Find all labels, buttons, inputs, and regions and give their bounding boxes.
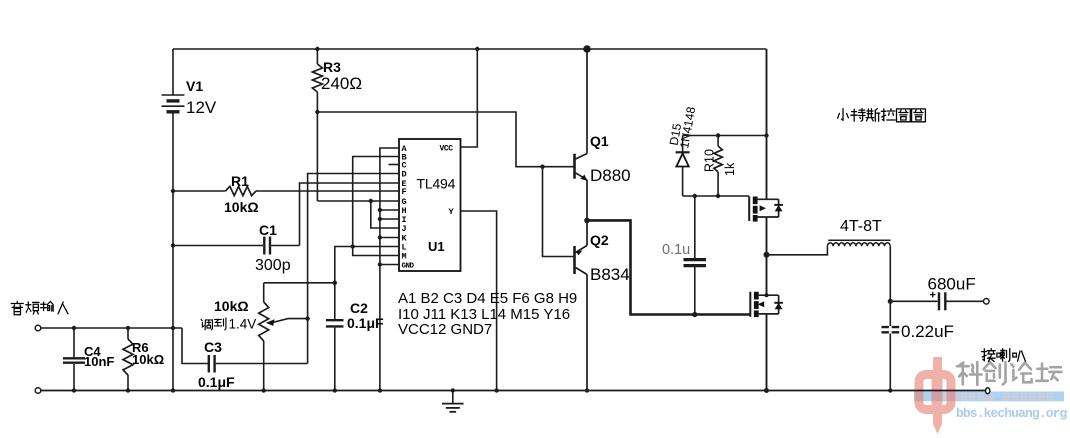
terminal speaker top — [984, 299, 990, 305]
node R10 top — [716, 133, 720, 137]
wire coil right end down to rail — [889, 246, 891, 390]
node 0.22uF bottom on rail — [888, 388, 892, 392]
battery V1 — [162, 95, 185, 112]
transistor lower MOSFET — [750, 292, 783, 317]
svg-text:V1: V1 — [186, 78, 203, 94]
potentiometer 10k body — [259, 283, 269, 391]
wire pin H stub — [380, 209, 399, 211]
svg-text:U1: U1 — [428, 239, 445, 254]
node Y riser on rail — [494, 388, 498, 392]
svg-text:C2: C2 — [350, 300, 368, 316]
svg-text:240Ω: 240Ω — [321, 74, 362, 93]
wire pin K stub — [380, 237, 399, 239]
wire pin GND stub — [380, 264, 399, 266]
wire C2 junction up to pin L line — [335, 247, 399, 283]
wire D15 R10 top line to drain rail — [683, 135, 767, 137]
svg-text:12V: 12V — [186, 98, 217, 117]
node pin K on bus — [378, 235, 382, 239]
svg-text:0.1u: 0.1u — [662, 242, 690, 258]
svg-text:A1 B2 C3 D4 E5 F6 G8 H9: A1 B2 C3 D4 E5 F6 G8 H9 — [398, 290, 577, 307]
wire top supply rail — [173, 48, 767, 50]
node R6 bottom — [126, 388, 130, 392]
ground — [442, 391, 464, 412]
node C4 top — [72, 326, 76, 330]
transistor Q2 — [575, 220, 588, 390]
wire audio input line — [41, 327, 182, 329]
node Q2 collector on rail — [585, 388, 589, 392]
svg-text:0.1μF: 0.1μF — [347, 315, 384, 331]
svg-text:B834: B834 — [590, 265, 630, 284]
node pin H on bus — [378, 208, 382, 212]
node pin L junction on B-L-M tie — [351, 244, 355, 248]
terminal audio input top — [35, 325, 41, 331]
node VCC riser on rail — [475, 47, 479, 51]
node C2 top junction — [333, 281, 337, 285]
node 680uF branch junction — [888, 299, 893, 304]
diode D15 — [676, 136, 690, 197]
transistor upper MOSFET — [749, 196, 783, 221]
svg-text:10kΩ: 10kΩ — [224, 199, 259, 215]
svg-text:4T-8T: 4T-8T — [840, 218, 882, 235]
svg-text:Y: Y — [449, 207, 455, 217]
svg-text:R3: R3 — [323, 59, 341, 75]
watermark forum name — [957, 362, 982, 385]
capacitor 0.22uF — [882, 326, 900, 334]
svg-text:bbs.kechuang.org: bbs.kechuang.org — [956, 406, 1068, 421]
node 0.1u top junction — [693, 194, 697, 198]
capacitor 0.1u — [684, 196, 707, 315]
wire pin D down to wiper node — [308, 174, 399, 364]
node pin GND on bus — [378, 262, 382, 266]
label small tesla coil title — [838, 109, 849, 121]
svg-text:C1: C1 — [259, 222, 277, 238]
wire bottom ground rail — [38, 390, 988, 392]
wire emitter output to lower gate — [587, 220, 750, 314]
inductor 4T-8T coil — [827, 240, 890, 246]
terminal audio input bottom — [35, 388, 41, 394]
capacitor C4 — [63, 328, 85, 391]
watermark slogan text — [944, 394, 1052, 400]
svg-text:Q2: Q2 — [590, 232, 609, 248]
svg-text:10nF: 10nF — [84, 354, 114, 369]
capacitor C3 — [209, 355, 308, 373]
svg-text:1k: 1k — [723, 162, 737, 176]
svg-text:F: F — [402, 187, 407, 197]
terminal speaker bottom — [986, 388, 990, 394]
wire wiper to potentiometer arrow — [272, 319, 308, 323]
wire Y pin down to bottom rail — [461, 211, 497, 391]
svg-text:C3: C3 — [204, 339, 222, 355]
node R3 top on rail — [315, 47, 319, 51]
node R10 bottom junction — [716, 194, 720, 198]
node left vertical to bottom rail — [171, 388, 175, 392]
wire pin I stub — [380, 218, 399, 220]
node C2 bottom on rail — [333, 388, 337, 392]
node R6 top — [126, 326, 130, 330]
svg-text:0.1μF: 0.1μF — [198, 374, 235, 390]
watermark seal — [919, 357, 951, 434]
node ground stub on rail — [451, 388, 455, 392]
node R1 tap on left vertical — [171, 189, 175, 193]
wire base tie down to Q2 base — [543, 167, 575, 257]
wire lower source to bottom rail — [766, 314, 768, 391]
wire VCC pin to top rail — [461, 49, 478, 147]
svg-text:10kΩ: 10kΩ — [214, 298, 249, 314]
svg-text:680uF: 680uF — [928, 275, 976, 294]
node base tie junction — [540, 165, 544, 169]
wire potentiometer top to C2 top — [264, 282, 335, 284]
svg-text:1.4V: 1.4V — [229, 317, 257, 332]
node 0.1u bottom junction — [692, 312, 697, 317]
node top line on drain rail — [764, 133, 768, 137]
svg-text:M: M — [402, 252, 407, 262]
wire ground bus pin A down to rail — [380, 148, 399, 391]
svg-text:10kΩ: 10kΩ — [132, 352, 164, 367]
node audio line crossing on left vertical — [171, 326, 175, 330]
node bus on bottom rail — [378, 388, 382, 392]
capacitor C2 — [326, 283, 344, 391]
svg-text:0.22uF: 0.22uF — [901, 322, 954, 341]
resistor R3 — [312, 49, 322, 201]
svg-text:VCC: VCC — [440, 145, 454, 154]
svg-text:Q1: Q1 — [590, 133, 609, 149]
node G-J branch junction — [369, 199, 373, 203]
op-amp U1 TL494 body — [399, 139, 461, 271]
wire mid node to coil — [767, 246, 828, 255]
wire drain rail from top — [766, 49, 768, 199]
wire left vertical battery to bottom rail — [172, 112, 174, 391]
svg-text:J: J — [402, 224, 407, 234]
node potentiometer bottom on rail — [262, 388, 266, 392]
wire pin B to tie vertical — [353, 157, 399, 256]
wire pin C stub unconnected — [389, 164, 400, 166]
node pin I on bus — [378, 217, 382, 221]
wire left vertical from rail to battery — [172, 49, 174, 96]
svg-text:R1: R1 — [231, 173, 249, 189]
wire pin G to pin J branch — [371, 201, 399, 228]
svg-text:VCC12 GND7: VCC12 GND7 — [398, 321, 492, 338]
node lower drain line crossing — [765, 293, 769, 297]
node C1 tap on left vertical — [171, 243, 175, 247]
potentiometer wiper arrowhead — [266, 319, 275, 326]
svg-text:R10: R10 — [703, 149, 717, 172]
svg-text:TL494: TL494 — [417, 176, 456, 192]
svg-text:300p: 300p — [255, 257, 291, 274]
svg-text:D: D — [402, 170, 407, 180]
svg-text:D880: D880 — [590, 166, 631, 185]
transistor Q1 — [575, 49, 588, 220]
watermark slogan band — [914, 392, 1064, 402]
resistor R6 — [123, 328, 133, 391]
wire C1 to pin E — [300, 183, 400, 246]
wire audio jog down to C3 — [182, 328, 208, 364]
node C4 bottom — [72, 388, 76, 392]
wire R3 to pin G — [317, 200, 399, 202]
resistor R10 — [714, 136, 722, 197]
node half-bridge mid junction — [764, 252, 770, 258]
wire mid node to lower drain — [766, 255, 768, 295]
node wiper junction — [305, 316, 309, 320]
label connect speaker — [982, 349, 996, 362]
label audio input — [11, 301, 23, 314]
node R3 bottom junction — [315, 110, 319, 114]
node Q1-Q2 emitter junction — [584, 218, 590, 224]
wire lower gate line D15 to upper FET gate — [683, 195, 750, 197]
svg-text:GND: GND — [402, 263, 415, 271]
label tuned-to adjustment — [201, 317, 256, 332]
node Q1 collector on rail — [583, 45, 591, 53]
capacitor 680uF — [890, 292, 983, 310]
node lower source on rail — [764, 388, 769, 393]
resistor R1 — [173, 186, 399, 195]
wire upper source to mid node — [766, 217, 768, 255]
wire R3 junction to Q1 base — [317, 112, 574, 167]
capacitor C1 — [173, 237, 300, 255]
